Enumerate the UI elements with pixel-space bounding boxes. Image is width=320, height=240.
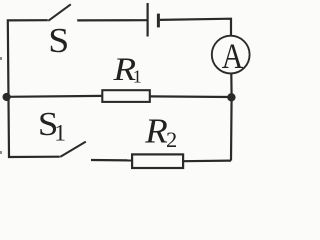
svg-text:R: R	[144, 111, 168, 150]
svg-text:1: 1	[133, 67, 142, 87]
svg-text:1: 1	[54, 120, 66, 146]
svg-text:S: S	[48, 21, 69, 60]
svg-text:2: 2	[166, 127, 177, 152]
svg-text:A: A	[222, 36, 244, 76]
